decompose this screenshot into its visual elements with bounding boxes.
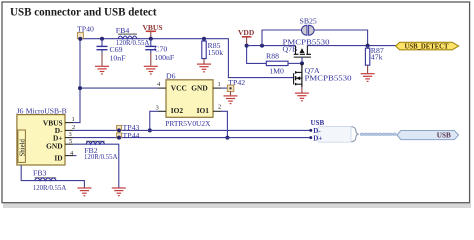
svg-text:D+: D+ xyxy=(313,134,322,142)
ground under Q7A xyxy=(301,87,303,93)
svg-text:R88: R88 xyxy=(266,52,279,61)
junction R85 xyxy=(202,37,206,41)
testpoint TP42 xyxy=(227,78,245,92)
svg-text:100nF: 100nF xyxy=(154,53,175,62)
svg-text:IO1: IO1 xyxy=(197,106,210,115)
svg-text:47k: 47k xyxy=(371,52,383,61)
ground under TP42 xyxy=(230,91,232,95)
bus port USB xyxy=(397,131,459,140)
wire: top rail TP40 to corner xyxy=(80,39,294,78)
wire: shield to FB3 to ground xyxy=(21,165,84,188)
ferrite bead FB4 xyxy=(116,26,150,47)
wire: Q7B gate stem xyxy=(301,57,303,63)
svg-text:1: 1 xyxy=(218,81,221,88)
testpoint TP40 xyxy=(77,25,94,39)
junction R87 xyxy=(366,44,370,48)
junction pin4 xyxy=(78,86,82,90)
ferrite bead FB3 xyxy=(33,169,67,192)
port USB_DETECT xyxy=(396,42,459,50)
svg-text:SB25: SB25 xyxy=(300,17,317,26)
ground under FB2 xyxy=(112,188,126,196)
connector J6 xyxy=(17,106,67,165)
svg-text:10nF: 10nF xyxy=(110,54,127,63)
junction gate node xyxy=(300,61,304,65)
svg-text:2: 2 xyxy=(218,104,221,111)
harness brace xyxy=(351,127,358,142)
transistor Q7B xyxy=(283,38,330,58)
svg-text:120R/0.55A: 120R/0.55A xyxy=(84,153,118,161)
junction IO2/D- xyxy=(148,128,152,132)
svg-text:1M0: 1M0 xyxy=(269,66,284,75)
testpoint TP44 xyxy=(117,131,140,140)
node dot D+ end xyxy=(309,136,312,139)
svg-text:USB_DETECT: USB_DETECT xyxy=(405,44,449,51)
wire: D6 pin1 to TP42 xyxy=(221,87,228,89)
wire: TP40 vertical to J6 pin1 xyxy=(73,39,80,123)
svg-text:ID: ID xyxy=(54,154,62,163)
wire: D6 pin3 to D- xyxy=(150,111,158,130)
svg-text:C70: C70 xyxy=(154,45,167,54)
ground under C69 xyxy=(101,53,103,66)
resistor R88 xyxy=(266,52,302,76)
resistor R87 xyxy=(365,46,383,66)
svg-text:GND: GND xyxy=(191,83,207,92)
IC D6 xyxy=(165,72,213,128)
sheet bottom shadow xyxy=(3,203,471,208)
junction VDD xyxy=(245,44,249,48)
transistor Q7A xyxy=(294,63,352,87)
resistor R85 xyxy=(202,39,223,59)
wire: D6 pin4 to TP40 line xyxy=(80,87,158,89)
wire: ID pin stub xyxy=(73,155,77,157)
ground under FB3 xyxy=(77,188,91,196)
capacitor C70 xyxy=(145,39,175,63)
junction TP44 xyxy=(117,136,121,140)
node dot D- end xyxy=(309,129,312,132)
wire: Q7B drain to flag xyxy=(307,45,395,47)
svg-text:3: 3 xyxy=(156,104,159,111)
wire: D6 pin2 to D+ xyxy=(221,111,227,137)
svg-text:120R/0.55A: 120R/0.55A xyxy=(33,184,67,192)
wire: SB25 bypass loop xyxy=(262,30,301,46)
solder bridge SB25 xyxy=(300,17,317,36)
junction TP40 xyxy=(78,37,82,41)
svg-text:USB connector and USB detect: USB connector and USB detect xyxy=(10,5,157,19)
testpoint TP43 xyxy=(117,123,140,132)
svg-text:GND: GND xyxy=(46,141,62,150)
svg-text:J6: J6 xyxy=(17,106,24,115)
junction SB25 branch left xyxy=(260,44,264,48)
junction TP43 xyxy=(117,128,121,132)
svg-text:120R/0.55A: 120R/0.55A xyxy=(116,39,150,47)
svg-text:VDD: VDD xyxy=(238,28,255,37)
svg-text:150k: 150k xyxy=(208,48,224,57)
junction C69 branch xyxy=(100,37,104,41)
svg-text:MicroUSB-B: MicroUSB-B xyxy=(26,106,67,115)
svg-text:USB: USB xyxy=(311,119,325,127)
wire: GND pin to FB2 and ground xyxy=(73,144,119,187)
junction VBUS xyxy=(149,37,153,41)
svg-text:TP44: TP44 xyxy=(123,131,140,140)
wire: VDD down to R88 xyxy=(247,46,267,64)
power port VDD xyxy=(238,28,255,46)
svg-text:IO2: IO2 xyxy=(171,106,184,115)
svg-text:PMCPB5530: PMCPB5530 xyxy=(305,73,352,82)
svg-text:VCC: VCC xyxy=(171,83,187,92)
svg-text:2: 2 xyxy=(72,124,75,131)
junction IO1/D+ xyxy=(225,136,229,140)
ground under C70 xyxy=(150,53,152,66)
twisted pair bus line xyxy=(360,133,397,136)
harness box xyxy=(318,126,351,142)
svg-text:PRTR5V0U2X: PRTR5V0U2X xyxy=(165,119,211,128)
svg-text:Shield: Shield xyxy=(20,139,27,157)
capacitor C69 xyxy=(97,39,127,63)
power port VBUS xyxy=(143,23,163,39)
wire: rail VDD to Q7B source xyxy=(247,45,296,47)
ground under R87 xyxy=(367,65,369,73)
svg-text:FB3: FB3 xyxy=(33,169,47,178)
ferrite bead FB2 xyxy=(84,141,118,161)
wire: D- line xyxy=(73,129,311,131)
svg-text:USB: USB xyxy=(437,132,451,140)
ground under R85 xyxy=(203,59,205,64)
wire: D+ line xyxy=(73,137,311,139)
